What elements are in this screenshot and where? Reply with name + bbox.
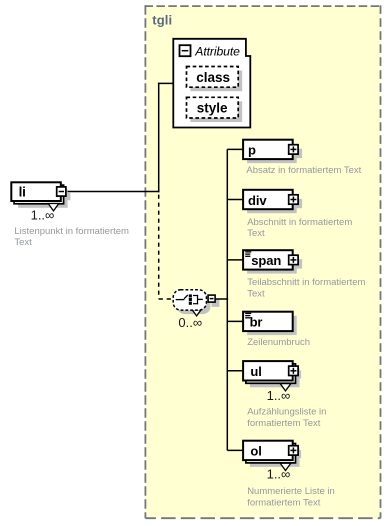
panel border top: [145, 5, 381, 7]
element li (1..inf, with children): [11, 182, 70, 211]
wire to p: [227, 148, 243, 150]
dashed vertical wire to choice: [158, 195, 160, 299]
wire to div: [227, 199, 243, 201]
wire li to tree junction: [66, 191, 159, 193]
panel tgli: [145, 6, 380, 518]
panel border left: [144, 5, 146, 518]
svg-text:tgli: tgli: [152, 12, 172, 27]
svg-text:Abschnitt in formatiertem: Abschnitt in formatiertem: [247, 217, 352, 228]
wire to ul: [227, 370, 243, 372]
dashed horizontal wire into choice: [159, 298, 174, 300]
svg-text:Nummerierte Liste in: Nummerierte Liste in: [247, 486, 335, 497]
svg-text:Text: Text: [14, 237, 32, 248]
svg-text:1..∞: 1..∞: [267, 388, 291, 403]
svg-text:Text: Text: [247, 228, 265, 239]
wire to span: [227, 259, 243, 261]
panel border bottom: [145, 517, 380, 519]
svg-text:Attribute: Attribute: [194, 44, 240, 58]
distribution vertical line: [226, 149, 228, 450]
wire to br: [227, 320, 243, 322]
wire choice to distribution line: [216, 298, 228, 300]
attribute style: [187, 97, 243, 122]
svg-text:br: br: [250, 315, 263, 330]
svg-text:class: class: [196, 70, 230, 85]
attribute group box: [173, 39, 250, 128]
svg-text:div: div: [248, 193, 267, 208]
svg-text:0..∞: 0..∞: [178, 315, 202, 330]
attribute class: [187, 67, 243, 92]
svg-text:ul: ul: [250, 364, 261, 379]
svg-text:Text: Text: [247, 288, 265, 299]
svg-text:1..∞: 1..∞: [267, 467, 291, 482]
element ul (1..inf): [243, 361, 301, 391]
svg-text:ol: ol: [250, 444, 261, 459]
choice connector (0..inf): [173, 290, 219, 316]
panel border right: [380, 5, 382, 518]
choice expand minus: [208, 295, 215, 302]
svg-text:li: li: [19, 185, 26, 200]
svg-text:Teilabschnitt in formatiertem: Teilabschnitt in formatiertem: [247, 277, 365, 288]
element br: [243, 312, 297, 335]
svg-text:style: style: [197, 101, 228, 116]
element p: [243, 140, 302, 163]
element div: [243, 190, 302, 213]
branch wire to attributes: [158, 82, 173, 84]
svg-text:p: p: [248, 143, 256, 158]
element ol (1..inf): [243, 441, 301, 471]
element span: [243, 250, 302, 273]
wire to ol: [227, 449, 243, 451]
svg-text:Absatz in formatiertem Text: Absatz in formatiertem Text: [246, 165, 361, 176]
svg-text:span: span: [251, 253, 281, 268]
tree vertical solid: [158, 83, 160, 193]
svg-text:Zeilenumbruch: Zeilenumbruch: [247, 337, 310, 348]
choice symbol: [176, 299, 185, 301]
svg-text:formatiertem Text: formatiertem Text: [247, 418, 321, 429]
svg-text:1..∞: 1..∞: [31, 208, 55, 223]
svg-text:formatiertem Text: formatiertem Text: [247, 498, 321, 509]
svg-text:Aufzählungsliste in: Aufzählungsliste in: [247, 407, 326, 418]
svg-text:Listenpunkt in formatiertem: Listenpunkt in formatiertem: [14, 226, 129, 237]
